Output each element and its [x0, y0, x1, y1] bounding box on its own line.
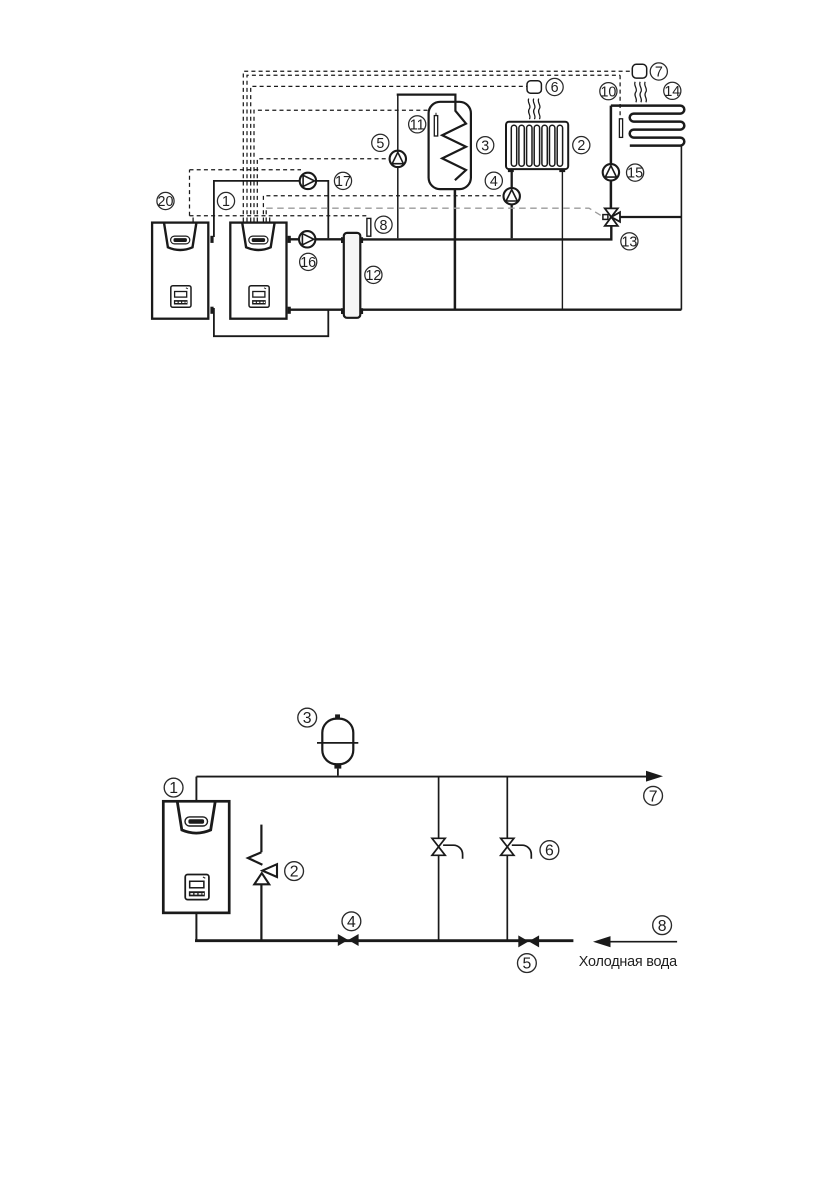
svg-text:7: 7	[655, 65, 663, 81]
svg-text:7: 7	[649, 788, 658, 805]
svg-text:2: 2	[290, 864, 299, 881]
svg-text:4: 4	[490, 174, 498, 190]
svg-text:15: 15	[627, 166, 643, 182]
svg-text:8: 8	[658, 918, 667, 935]
svg-text:13: 13	[621, 234, 637, 250]
svg-text:6: 6	[545, 843, 554, 860]
svg-text:5: 5	[523, 956, 532, 973]
svg-text:8: 8	[380, 218, 388, 234]
svg-text:6: 6	[551, 80, 559, 96]
svg-text:11: 11	[410, 117, 425, 133]
svg-text:12: 12	[365, 268, 381, 284]
svg-text:3: 3	[303, 710, 312, 727]
svg-text:16: 16	[300, 255, 316, 271]
svg-text:1: 1	[222, 194, 230, 210]
svg-text:2: 2	[577, 138, 585, 154]
svg-text:10: 10	[600, 84, 616, 100]
svg-text:3: 3	[481, 138, 489, 154]
svg-text:20: 20	[158, 194, 174, 210]
svg-text:1: 1	[169, 780, 178, 797]
svg-text:17: 17	[335, 174, 351, 190]
svg-text:Холодная вода: Холодная вода	[579, 954, 677, 970]
svg-text:5: 5	[376, 136, 384, 152]
svg-text:4: 4	[347, 914, 356, 931]
svg-text:14: 14	[664, 84, 680, 100]
